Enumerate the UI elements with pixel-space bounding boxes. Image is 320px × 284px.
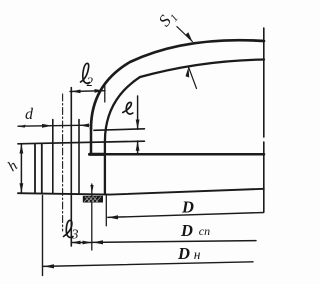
svg-text:D: D: [177, 244, 190, 263]
svg-text:h: h: [5, 158, 21, 175]
svg-text:D: D: [181, 198, 194, 217]
svg-text:d: d: [25, 106, 34, 123]
svg-text:сп: сп: [199, 224, 210, 238]
svg-text:3: 3: [71, 228, 79, 243]
svg-text:н: н: [194, 247, 201, 262]
svg-text:D: D: [180, 221, 193, 240]
svg-text:2: 2: [87, 74, 94, 89]
